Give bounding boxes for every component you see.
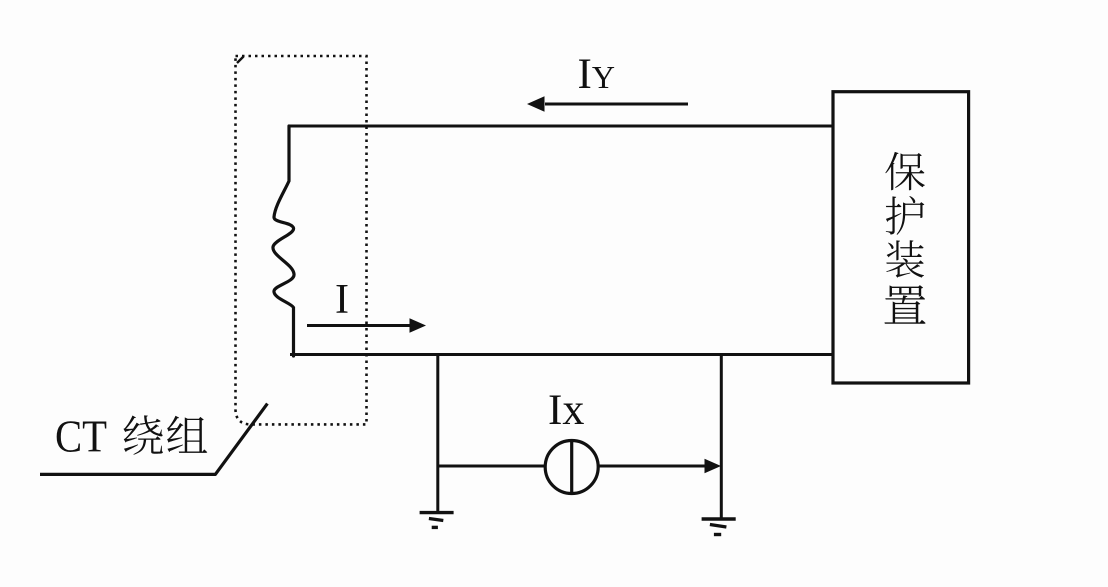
leader line pointing from label to winding box bbox=[40, 404, 267, 475]
arrow from current source to right drop (pointing right) bbox=[598, 459, 721, 474]
label 保 (protection device text char 1) bbox=[885, 152, 925, 190]
protection device box U1 bbox=[833, 92, 969, 383]
wire: top conductor from winding to protection device bbox=[289, 125, 834, 128]
ground GND1 (left) bbox=[420, 513, 454, 528]
svg-text:CT: CT bbox=[55, 411, 107, 462]
winding coil (CT secondary) bbox=[273, 126, 294, 356]
corner tick on dotted box (hand-drawn artifact) bbox=[237, 57, 244, 64]
svg-text:IY: IY bbox=[578, 51, 615, 98]
svg-text:I: I bbox=[335, 277, 349, 323]
wire: from left drop to current source bbox=[438, 465, 545, 468]
svg-text:Ix: Ix bbox=[548, 385, 584, 434]
arrow for I (pointing right) bbox=[307, 318, 426, 333]
arrow for IY (pointing left) bbox=[527, 96, 688, 111]
label 装 (protection device text char 3) bbox=[886, 240, 924, 278]
wire: left vertical drop to ground bbox=[436, 355, 439, 513]
current source Ix (circle with bar) bbox=[545, 440, 598, 494]
label 绕 (winding name char 1) bbox=[124, 415, 163, 454]
ground GND2 (right) bbox=[702, 519, 736, 535]
label 置 (protection device text char 4) bbox=[884, 285, 925, 324]
wire: right vertical drop to ground bbox=[720, 355, 723, 519]
label 组 (winding name char 2) bbox=[167, 416, 207, 453]
label 护 (protection device text char 2) bbox=[886, 196, 925, 235]
wire: bottom conductor from winding to protection device bbox=[290, 353, 834, 356]
CT winding boundary (dotted box) bbox=[236, 56, 367, 424]
